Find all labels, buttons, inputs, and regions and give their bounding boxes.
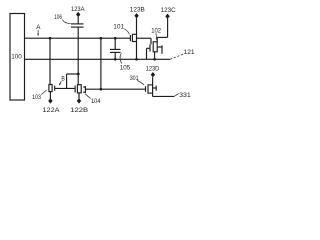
wire row2 output 121 horizontal	[25, 58, 171, 60]
leader 102	[155, 33, 158, 39]
transistor 301	[146, 85, 157, 93]
leader 105	[120, 53, 122, 63]
wire 102 gate from 101 source line	[137, 38, 151, 44]
junction dot row1 x=100.9	[100, 37, 103, 40]
junction dot row1 x=115.2	[114, 37, 117, 40]
wire riser row1 to gate bus	[100, 38, 102, 89]
leader 103	[41, 90, 46, 95]
wire 102 gate lower lead to row2	[147, 48, 151, 59]
wire 101 source to row2	[136, 42, 138, 60]
svg-text:123D: 123D	[146, 66, 160, 73]
terminal 123C diamond	[165, 14, 169, 19]
capacitor 105 column	[110, 38, 121, 59]
wire: 103 drain column from row1 down to 103	[49, 38, 51, 84]
transistor 101	[130, 34, 136, 41]
wire 102 source to row2	[154, 52, 156, 60]
svg-text:123B: 123B	[130, 6, 146, 13]
wire node B horizontal jog and riser	[55, 74, 79, 88]
leader 106	[62, 20, 70, 24]
svg-text:122A: 122A	[43, 107, 61, 114]
svg-text:105: 105	[120, 65, 131, 72]
terminal 123A diamond	[76, 12, 80, 17]
wire node A gate bus y=89.2 (104 gate to 301 gate)	[85, 88, 145, 90]
svg-text:A: A	[36, 24, 41, 31]
svg-text:123A: 123A	[71, 6, 85, 13]
terminal 123D diamond	[151, 72, 155, 77]
capacitor 106 plates	[71, 24, 84, 27]
svg-text:100: 100	[11, 53, 22, 60]
leader 331	[174, 94, 178, 97]
block 100 (pulse output circuit box)	[10, 14, 25, 101]
junction dot row2 x=115.2	[114, 58, 117, 61]
wire 101 drain to 123B	[136, 18, 138, 34]
node A label and arrow	[36, 24, 41, 36]
leader 301	[137, 80, 144, 85]
svg-text:104: 104	[91, 98, 101, 105]
terminal 123B diamond	[134, 13, 138, 18]
wire 103 source to 122A	[49, 92, 51, 99]
wire row1 node A horizontal	[25, 37, 131, 39]
svg-text:106: 106	[54, 14, 62, 21]
svg-text:122B: 122B	[70, 107, 89, 114]
leader 121 dashed	[170, 54, 183, 59]
wire 301 drain to 123D	[152, 77, 154, 85]
transistor 103	[49, 85, 56, 92]
leader 101	[124, 29, 129, 35]
wire 104 source to 122B	[78, 93, 80, 99]
svg-text:103: 103	[32, 94, 41, 101]
svg-text:121: 121	[184, 49, 195, 56]
terminal 122B diamond	[77, 98, 81, 103]
terminal 122A diamond	[48, 98, 52, 103]
wire: capacitor 106 column (123A - cap - node B - 104)	[77, 17, 79, 24]
transistor 102	[150, 42, 162, 54]
junction dot row1 x=50	[49, 37, 52, 40]
node B dot at junction of cap106 column and gate riser	[77, 73, 80, 76]
svg-text:123C: 123C	[161, 7, 176, 14]
wire 102 drain jog to 123C	[157, 19, 167, 42]
transistor 104	[75, 85, 85, 93]
junction dot gate bus x=100.9	[100, 88, 103, 91]
wire 301 source to output 331	[153, 93, 175, 96]
node B label and arrow	[59, 76, 65, 86]
svg-text:B: B	[61, 76, 65, 83]
junction dot row2 x=154.6	[153, 58, 156, 61]
svg-text:331: 331	[179, 92, 191, 99]
svg-text:101: 101	[113, 24, 124, 31]
leader 104	[85, 94, 90, 99]
junction dot row2 x=136.5	[135, 58, 138, 61]
